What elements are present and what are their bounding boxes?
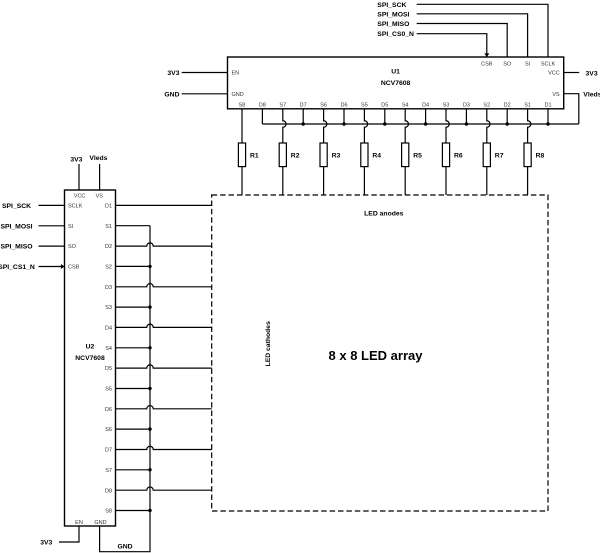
resistor R6 <box>442 143 449 167</box>
junction dot S6/bus <box>148 427 151 430</box>
wire U2 D8 to LED array cathode <box>116 487 212 490</box>
resistor R2 <box>279 143 286 167</box>
input arrow at U1 CSB <box>484 53 489 57</box>
svg-text:D4: D4 <box>105 326 112 332</box>
svg-text:SPI_SCK: SPI_SCK <box>2 203 31 210</box>
resistor R4 <box>361 143 368 167</box>
8x8 LED array block (dashed) <box>212 195 548 511</box>
svg-text:D5: D5 <box>381 103 388 109</box>
svg-text:D6: D6 <box>340 103 347 109</box>
svg-text:SO: SO <box>68 244 77 250</box>
svg-text:SPI_CS1_N: SPI_CS1_N <box>0 264 35 271</box>
svg-text:R4: R4 <box>372 152 381 159</box>
wire U2 S4 to GND bus <box>116 347 151 349</box>
junction dot D1/bus <box>546 122 549 125</box>
input arrow at U2 CSB <box>61 264 65 269</box>
wire R6 to LED array anode <box>445 167 447 195</box>
wire SPI_SCK to U1 <box>417 4 548 57</box>
svg-text:3V3: 3V3 <box>70 156 82 163</box>
wire U2 S1 to GND bus <box>116 225 151 227</box>
svg-text:EN: EN <box>75 520 83 526</box>
wire U1 S4 to R5 <box>405 109 408 143</box>
wire U2 D2 to LED array cathode <box>116 243 212 246</box>
wire SPI_MOSI to U1 <box>417 14 528 57</box>
svg-text:EN: EN <box>232 71 240 77</box>
wire U1 S3 to R6 <box>446 109 449 143</box>
svg-text:SO: SO <box>503 62 512 68</box>
svg-text:S4: S4 <box>402 103 409 109</box>
junction dot D2/bus <box>506 122 509 125</box>
wire U1 S2 to R7 <box>487 109 490 143</box>
svg-text:SI: SI <box>525 62 531 68</box>
svg-text:S5: S5 <box>105 387 112 393</box>
svg-text:SPI_CS0_N: SPI_CS0_N <box>377 31 414 38</box>
junction dot S7/bus <box>148 468 151 471</box>
wire U1 S6 to R3 <box>324 109 327 143</box>
wire U1 D2 stub <box>506 109 508 124</box>
svg-text:SI: SI <box>68 224 74 230</box>
svg-text:S7: S7 <box>105 468 112 474</box>
wire SPI_CS1_N to U2 CSB <box>39 266 65 268</box>
svg-text:CSB: CSB <box>481 62 493 68</box>
wire SPI_MISO to U2 SO <box>39 245 65 247</box>
svg-text:R8: R8 <box>536 152 545 159</box>
wire U1 D3 stub <box>465 109 467 124</box>
svg-text:S2: S2 <box>483 103 490 109</box>
wire U2 D1 to LED array cathode <box>116 204 212 206</box>
wire 3V3 to U1 EN <box>182 72 228 74</box>
resistor R7 <box>483 143 490 167</box>
svg-text:NCV7608: NCV7608 <box>75 355 105 362</box>
svg-text:Vleds: Vleds <box>583 92 600 99</box>
svg-text:S7: S7 <box>279 103 286 109</box>
wire U2 D3 to LED array cathode <box>116 284 212 287</box>
junction dot S8/bus <box>148 509 151 512</box>
svg-text:S8: S8 <box>105 509 112 515</box>
junction dot D5/bus <box>383 122 386 125</box>
wire U1 S5 to R4 <box>364 109 367 143</box>
wire D bus (all U1 drains to Vleds) <box>262 123 578 125</box>
wire U2 S6 to GND bus <box>116 428 151 430</box>
wire GND to U1 GND <box>182 93 228 95</box>
wire R3 to LED array anode <box>323 167 325 195</box>
svg-text:S5: S5 <box>361 103 368 109</box>
svg-text:U2: U2 <box>86 344 95 351</box>
svg-text:VS: VS <box>96 194 104 200</box>
svg-text:3V3: 3V3 <box>586 70 598 77</box>
junction dot S2/bus <box>148 265 151 268</box>
svg-text:8 x 8 LED array: 8 x 8 LED array <box>329 348 424 363</box>
svg-text:LED anodes: LED anodes <box>364 211 403 218</box>
junction dot S5/bus <box>148 387 151 390</box>
wire U2 S7 to GND bus <box>116 469 151 471</box>
svg-text:D4: D4 <box>422 103 429 109</box>
svg-text:LED cathodes: LED cathodes <box>265 321 272 367</box>
svg-text:D7: D7 <box>105 448 112 454</box>
junction dot D6/bus <box>342 122 345 125</box>
svg-text:GND: GND <box>164 91 179 98</box>
svg-text:S1: S1 <box>105 224 112 230</box>
wire U2 S5 to GND bus <box>116 388 151 390</box>
wire S bus to U2 GND <box>100 226 150 552</box>
svg-text:S4: S4 <box>105 346 112 352</box>
svg-text:D2: D2 <box>105 244 112 250</box>
svg-text:R2: R2 <box>291 152 300 159</box>
junction dot S4/bus <box>148 346 151 349</box>
wire R5 to LED array anode <box>404 167 406 195</box>
wire U1 S7 to R2 <box>283 109 286 143</box>
wire R1 to LED array anode <box>241 167 243 195</box>
wire SPI_CS0_N to U1 <box>417 34 487 57</box>
svg-text:S3: S3 <box>443 103 450 109</box>
svg-text:SPI_MISO: SPI_MISO <box>0 244 32 251</box>
svg-text:D3: D3 <box>463 103 470 109</box>
svg-text:VCC: VCC <box>548 71 560 77</box>
wire U1 S1 to R8 <box>528 109 531 143</box>
svg-text:Vleds: Vleds <box>89 155 107 162</box>
svg-text:VS: VS <box>552 92 560 98</box>
svg-text:U1: U1 <box>391 69 400 76</box>
wire U2 S3 to GND bus <box>116 306 151 308</box>
junction dot D3/bus <box>465 122 468 125</box>
svg-text:S3: S3 <box>105 305 112 311</box>
wire U2 S2 to GND bus <box>116 265 151 267</box>
resistor R3 <box>320 143 327 167</box>
wire U1 D4 stub <box>425 109 427 124</box>
svg-text:D1: D1 <box>544 103 551 109</box>
wire U2 S8 to GND bus <box>116 510 151 512</box>
wire U1 D1 stub <box>547 109 549 124</box>
svg-text:S1: S1 <box>524 103 531 109</box>
svg-text:D3: D3 <box>105 285 112 291</box>
svg-text:SCLK: SCLK <box>68 204 83 210</box>
wire Vleds to U2 VS <box>99 164 101 190</box>
junction dot D7/bus <box>302 122 305 125</box>
svg-text:SCLK: SCLK <box>541 62 556 68</box>
svg-text:R1: R1 <box>250 152 259 159</box>
wire U1 S8 to R1 <box>241 109 243 143</box>
wire U1 VCC to 3V3 <box>564 72 580 74</box>
wire SPI_SCK to U2 SCLK <box>39 204 65 206</box>
wire U1 D8 stub <box>261 109 263 124</box>
svg-text:VCC: VCC <box>74 194 86 200</box>
svg-text:SPI_MOSI: SPI_MOSI <box>0 223 32 230</box>
svg-text:S8: S8 <box>239 103 246 109</box>
wire U1 D5 stub <box>384 109 386 124</box>
junction dot D4/bus <box>424 122 427 125</box>
svg-text:R3: R3 <box>332 152 341 159</box>
svg-text:3V3: 3V3 <box>167 70 179 77</box>
wire U1 D6 stub <box>343 109 345 124</box>
svg-text:GND: GND <box>117 543 132 550</box>
svg-text:NCV7608: NCV7608 <box>381 80 411 87</box>
junction dot S3/bus <box>148 305 151 308</box>
svg-text:GND: GND <box>94 520 106 526</box>
svg-text:S2: S2 <box>105 265 112 271</box>
svg-text:R7: R7 <box>495 152 504 159</box>
wire R2 to LED array anode <box>282 167 284 195</box>
svg-text:D2: D2 <box>504 103 511 109</box>
svg-text:S6: S6 <box>320 103 327 109</box>
svg-text:R5: R5 <box>413 152 422 159</box>
svg-text:SPI_MISO: SPI_MISO <box>377 21 409 28</box>
svg-text:S6: S6 <box>105 427 112 433</box>
wire U1 VS to Vleds / D bus <box>564 94 579 124</box>
wire 3V3 to U2 VCC <box>78 164 80 190</box>
wire R7 to LED array anode <box>486 167 488 195</box>
svg-text:R6: R6 <box>454 152 463 159</box>
svg-text:SPI_MOSI: SPI_MOSI <box>377 11 409 18</box>
wire SPI_MOSI to U2 SI <box>39 225 65 227</box>
resistor R5 <box>402 143 409 167</box>
wire U2 EN to 3V3 <box>59 526 79 542</box>
resistor R1 <box>238 143 245 167</box>
svg-text:D8: D8 <box>259 103 266 109</box>
svg-text:D6: D6 <box>105 407 112 413</box>
IC U2 NCV7608 (left, octal driver) <box>65 190 116 526</box>
svg-text:D1: D1 <box>105 204 112 210</box>
wire U1 D7 stub <box>302 109 304 124</box>
svg-text:D5: D5 <box>105 366 112 372</box>
wire U2 D5 to LED array cathode <box>116 365 212 368</box>
svg-text:CSB: CSB <box>68 265 80 271</box>
svg-text:D7: D7 <box>300 103 307 109</box>
resistor R8 <box>524 143 531 167</box>
svg-text:D8: D8 <box>105 488 112 494</box>
wire R4 to LED array anode <box>363 167 365 195</box>
svg-text:SPI_SCK: SPI_SCK <box>377 2 406 9</box>
wire U2 D7 to LED array cathode <box>116 446 212 449</box>
svg-text:3V3: 3V3 <box>40 540 52 547</box>
wire U2 D6 to LED array cathode <box>116 406 212 409</box>
svg-text:GND: GND <box>232 92 244 98</box>
IC U1 NCV7608 (top, octal driver) <box>228 57 564 109</box>
wire SPI_MISO to U1 <box>417 24 508 58</box>
wire R8 to LED array anode <box>527 167 529 195</box>
wire U2 D4 to LED array cathode <box>116 324 212 327</box>
